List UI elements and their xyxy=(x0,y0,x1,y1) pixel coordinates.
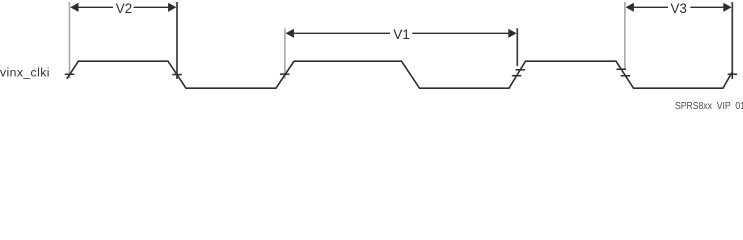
svg-text:vinx_clki: vinx_clki xyxy=(0,65,50,79)
dimension line V3 xyxy=(633,6,724,8)
lower tick on falling edge 3 xyxy=(621,75,631,77)
svg-text:V1: V1 xyxy=(393,27,409,42)
svg-text:V2: V2 xyxy=(116,1,132,16)
dimension line V1 xyxy=(294,32,509,34)
extension line V1 right (dark) xyxy=(516,28,518,66)
arrowhead V2 left xyxy=(70,3,78,12)
svg-text:SPRS8xx_VIP_01: SPRS8xx_VIP_01 xyxy=(675,101,743,110)
arrowhead V3 right xyxy=(723,3,731,12)
tick on rising edge 4 xyxy=(728,73,738,75)
arrowhead V1 right xyxy=(508,29,516,38)
extension line V3 left (light) xyxy=(624,2,626,70)
arrowhead V2 right xyxy=(168,3,176,12)
upper tick on rising edge 3 xyxy=(515,69,525,71)
lower tick on rising edge 3 xyxy=(512,75,521,77)
svg-text:V3: V3 xyxy=(671,1,687,16)
extension line V1 left (light) xyxy=(284,28,286,78)
arrowhead V3 left xyxy=(626,3,634,12)
extension line V3 right (dark) xyxy=(731,2,733,79)
upper tick on falling edge 3 xyxy=(616,68,626,70)
extension line V2 right (dark) xyxy=(176,2,178,79)
arrowhead V1 left xyxy=(286,29,294,38)
tick on rising edge 2 xyxy=(280,73,290,75)
clock waveform vinx_clki xyxy=(67,61,733,88)
tick on rising edge 1 xyxy=(65,73,75,75)
dimension line V2 xyxy=(78,6,168,8)
extension line V2 left (light) xyxy=(69,2,71,78)
tick on falling edge 1 xyxy=(172,74,182,76)
